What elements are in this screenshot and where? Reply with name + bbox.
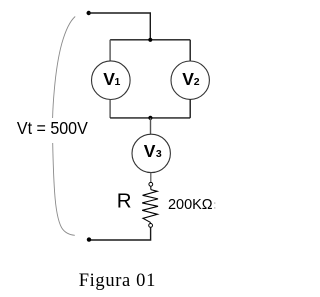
voltmeter V1	[92, 61, 131, 100]
wire: parallel top rail	[110, 39, 190, 41]
wire: V1 bottom to bottom rail	[109, 100, 111, 118]
wire: terminal to zigzag	[150, 186, 152, 189]
svg-text:V: V	[144, 141, 156, 161]
node: junction dot bottom rail	[148, 116, 152, 120]
svg-text:Figura 01: Figura 01	[79, 271, 156, 291]
node: open terminal circle above resistor	[149, 182, 153, 186]
node: bottom terminal dot	[87, 237, 91, 241]
resistor R zigzag	[142, 190, 158, 223]
brace: Vt source bracket curve (upper half)	[53, 17, 76, 119]
svg-text:2: 2	[194, 76, 200, 88]
node: junction dot top rail	[148, 38, 152, 42]
svg-text:200KΩ: 200KΩ	[168, 196, 213, 213]
svg-text::: :	[213, 200, 216, 212]
svg-text:3: 3	[156, 148, 162, 160]
wire: parallel bottom rail	[110, 117, 190, 119]
wire: right branch down to V2	[189, 40, 191, 61]
voltmeter V2	[171, 61, 209, 99]
wire: bottom return wire	[89, 227, 151, 240]
wire: zigzag to bottom terminal circle	[149, 222, 151, 223]
svg-text:V: V	[182, 69, 194, 89]
voltmeter V3	[132, 134, 170, 172]
node: top terminal dot	[87, 11, 91, 15]
wire: left branch down to V1	[109, 40, 111, 61]
svg-text:Vt = 500V: Vt = 500V	[17, 118, 88, 138]
brace: Vt source bracket curve (lower half)	[53, 143, 75, 235]
wire: junction down to V3	[150, 118, 152, 134]
wire: V3 bottom to resistor terminal	[150, 173, 152, 183]
svg-text:R: R	[117, 189, 132, 212]
svg-text:V: V	[103, 69, 115, 89]
node: open terminal circle below resistor	[149, 224, 153, 228]
wire: top feed horizontal and vertical	[89, 13, 151, 40]
wire: V2 bottom to bottom rail	[189, 99, 191, 118]
svg-text:1: 1	[115, 76, 121, 88]
